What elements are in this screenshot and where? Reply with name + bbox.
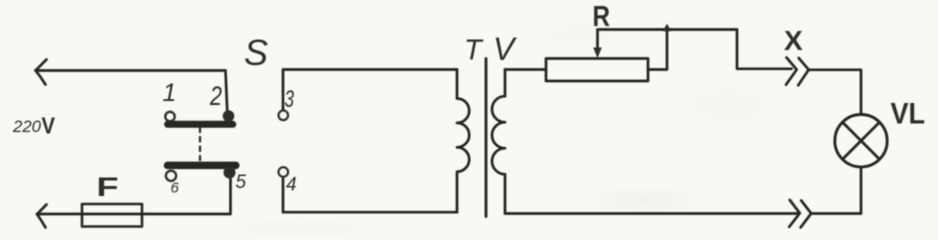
svg-text:S: S [244, 32, 268, 73]
svg-text:1: 1 [163, 79, 177, 107]
svg-text:F: F [97, 172, 119, 202]
svg-text:2: 2 [209, 81, 222, 111]
svg-text:4: 4 [286, 175, 297, 196]
svg-text:220: 220 [12, 117, 42, 136]
svg-text:5: 5 [236, 172, 247, 193]
svg-text:X: X [784, 25, 803, 56]
svg-text:R: R [593, 1, 611, 33]
svg-text:V: V [493, 31, 517, 67]
svg-text:6: 6 [171, 180, 180, 197]
svg-text:3: 3 [285, 86, 295, 113]
svg-text:VL: VL [891, 98, 926, 131]
svg-text:V: V [42, 113, 56, 139]
svg-text:T: T [464, 35, 484, 67]
